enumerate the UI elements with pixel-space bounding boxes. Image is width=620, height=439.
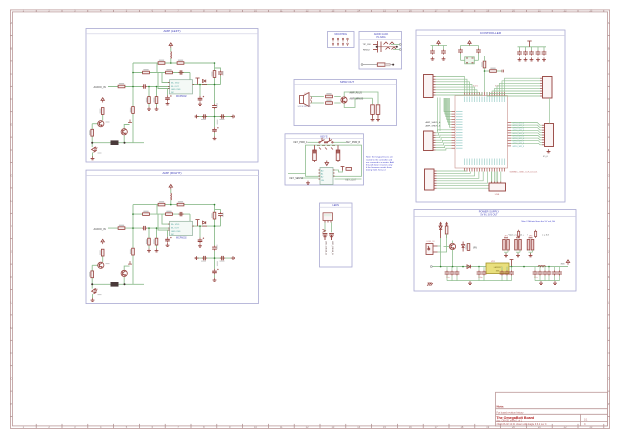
ground keys xyxy=(306,181,310,185)
wire frame net xyxy=(306,145,362,176)
svg-text:LED_DATA_A: LED_DATA_A xyxy=(325,241,328,255)
wire main rail xyxy=(432,266,568,268)
wire SJ2 down xyxy=(516,250,520,254)
wire left riser b xyxy=(439,98,441,132)
svg-text:H: H xyxy=(608,199,610,203)
svg-text:USB: USB xyxy=(495,194,500,196)
svg-text:For board revision history: For board revision history xyxy=(497,411,525,414)
svg-text:10u: 10u xyxy=(446,277,449,279)
pin circle rail left xyxy=(430,266,432,268)
supply flag right xyxy=(566,260,569,265)
resistor R22 xyxy=(465,244,469,251)
capacitor CC1 xyxy=(506,267,508,271)
pin circle 1 xyxy=(399,44,401,46)
svg-text:AMP_SHDN_A: AMP_SHDN_A xyxy=(426,121,441,124)
wire gnd far right xyxy=(549,280,560,282)
amp circuit left channel xyxy=(89,43,234,160)
supply flag mid xyxy=(510,260,514,267)
svg-text:PJ-320A: PJ-320A xyxy=(376,36,386,39)
mounting hole H1 xyxy=(332,38,334,41)
microcontroller U3 body xyxy=(455,96,508,169)
capacitor CD0 xyxy=(534,267,536,271)
title block outline xyxy=(496,392,608,426)
wire sense xyxy=(302,177,319,179)
connector J8 bottom xyxy=(489,183,506,191)
wire q4 xyxy=(444,241,453,267)
ic U2 keyscan xyxy=(319,168,335,185)
switch pads marks xyxy=(317,146,335,150)
ground right group xyxy=(539,281,543,285)
wire sleeve bottom xyxy=(363,64,394,66)
svg-text:O: O xyxy=(10,377,12,381)
capacitor CE1 xyxy=(559,267,561,271)
audio jack J1 xyxy=(373,41,397,53)
barrel jack J9 xyxy=(426,244,438,255)
wire to Q3 xyxy=(334,92,378,108)
svg-text:VIN: VIN xyxy=(473,248,477,250)
ground below C13 xyxy=(376,117,380,121)
ground below C40 xyxy=(518,57,522,61)
resistor R12 xyxy=(326,93,333,98)
diode D7 series xyxy=(467,265,470,269)
ground below C21 xyxy=(442,57,446,61)
wire crystal right xyxy=(474,59,478,61)
svg-text:P: P xyxy=(608,402,610,406)
svg-text:AMP_SHDN_B: AMP_SHDN_B xyxy=(426,124,441,127)
wire tip to pin xyxy=(391,45,400,50)
capacitor C20 xyxy=(432,46,434,50)
svg-text:AMP_MINUS: AMP_MINUS xyxy=(350,97,364,100)
wire right riser xyxy=(549,98,551,124)
switch S2 xyxy=(326,138,333,143)
svg-text:C: C xyxy=(10,72,12,76)
diode D5 vertical xyxy=(439,223,442,238)
transistor Q4 xyxy=(449,243,455,249)
fuse F1 vertical xyxy=(445,223,448,238)
svg-text:AMP_PLUS: AMP_PLUS xyxy=(350,92,363,95)
resistor R14 small xyxy=(346,168,352,171)
BOX H : controller xyxy=(416,30,565,202)
supply VCC topleft xyxy=(437,41,440,46)
supply arrow D5 xyxy=(439,222,441,227)
capacitor C21 xyxy=(443,46,445,50)
svg-text:N: N xyxy=(608,351,610,355)
wire SJ1 down xyxy=(504,250,508,254)
svg-text:A1: A1 xyxy=(321,173,323,176)
svg-text:P: P xyxy=(11,402,13,406)
capacitor C13 electrolytic xyxy=(376,105,380,118)
resistor R20 pullup xyxy=(481,61,485,68)
resistor R13 xyxy=(326,100,333,105)
svg-text:USB_5V: USB_5V xyxy=(427,241,436,243)
BOX E : speaker out xyxy=(294,80,397,126)
ground SJ1 xyxy=(504,253,508,256)
resistor R11 sleeve xyxy=(377,63,385,66)
wire speaker minus xyxy=(311,102,324,104)
capacitor CA2 xyxy=(456,267,458,271)
crystal Y1 xyxy=(465,57,475,64)
wires J3 to U3 xyxy=(487,78,540,96)
supply arrow F1 xyxy=(445,222,447,227)
note text block keys xyxy=(366,156,395,172)
amp circuit right channel xyxy=(89,185,234,302)
capacitor CA1 xyxy=(451,267,453,271)
mounting hole H4 xyxy=(347,38,349,41)
svg-text:The OmegaBolt Board: The OmegaBolt Board xyxy=(496,416,534,420)
capacitor CB0 xyxy=(478,267,480,271)
svg-text:22u: 22u xyxy=(534,277,537,279)
svg-text:KEY_SENSE: KEY_SENSE xyxy=(290,178,304,180)
svg-text:GPIO_SPI_9: GPIO_SPI_9 xyxy=(513,146,525,148)
wire jack up xyxy=(438,234,447,267)
wire crystal rail xyxy=(461,45,479,47)
svg-text:KEY_PWR_B: KEY_PWR_B xyxy=(346,142,361,144)
svg-text:TIP_SW: TIP_SW xyxy=(363,44,372,46)
svg-text:IO_0: IO_0 xyxy=(543,156,549,158)
speaker LS1 xyxy=(300,93,312,107)
svg-text:5V IN, 3V3 OUT: 5V IN, 3V3 OUT xyxy=(480,214,498,217)
svg-text:MOUNTING: MOUNTING xyxy=(335,34,348,36)
capacitor stack C17 xyxy=(323,234,328,241)
U3 top pin labels xyxy=(464,97,505,103)
svg-text:are scanned in a matrix. Add: are scanned in a matrix. Add xyxy=(366,161,395,164)
ground far right xyxy=(553,281,557,285)
junction R21 xyxy=(484,70,486,72)
red mark R21 end xyxy=(502,70,503,73)
svg-text:SPKR 8R 2W: SPKR 8R 2W xyxy=(298,106,312,108)
svg-text:D: D xyxy=(608,97,610,101)
svg-text:AMP (LEFT): AMP (LEFT) xyxy=(163,29,180,33)
svg-text:K: K xyxy=(608,275,610,279)
U3 left pin labels xyxy=(456,111,463,149)
U3 bottom pin row xyxy=(465,168,505,172)
svg-text:G: G xyxy=(608,173,610,177)
capacitor C44 xyxy=(543,47,545,51)
svg-text:H: H xyxy=(10,199,12,203)
capacitor CA0 xyxy=(446,267,448,271)
wire led left xyxy=(324,223,326,233)
ground below C44 xyxy=(542,57,546,61)
svg-text:G: G xyxy=(10,173,12,177)
resistor RF2 formula xyxy=(535,230,537,238)
wires J2 to U3 xyxy=(436,77,483,96)
net label vertical right xyxy=(331,241,334,255)
capacitor CC2 xyxy=(511,267,513,271)
wire cap rail left xyxy=(431,45,448,47)
ground J6 xyxy=(547,149,551,153)
svg-text:Note:: Note: xyxy=(497,405,505,409)
svg-text:routed to the controller and: routed to the controller and xyxy=(366,158,393,161)
svg-text:KEYS: KEYS xyxy=(321,134,328,138)
mounting hole H5 xyxy=(332,43,334,46)
capacitor CE0 xyxy=(554,267,556,271)
capacitor C15 electrolytic xyxy=(336,145,340,162)
capacitor CB1 xyxy=(483,267,485,271)
supply VCC topright xyxy=(527,41,531,47)
svg-text:100n: 100n xyxy=(478,277,482,279)
svg-text:O: O xyxy=(608,377,610,381)
capacitor C40 xyxy=(519,47,521,51)
ground below C43 xyxy=(536,57,540,61)
wires J4 to U3 left xyxy=(436,98,452,150)
wire crystal left xyxy=(461,59,465,61)
capacitor C43 xyxy=(537,47,539,51)
capacitor C42 xyxy=(531,47,533,51)
BOX G : status leds xyxy=(320,203,353,267)
svg-text:A2: A2 xyxy=(321,176,323,179)
ground below C42 xyxy=(530,57,534,61)
junction sleeve xyxy=(392,64,394,66)
svg-text:if the firmware needs them: if the firmware needs them xyxy=(366,166,392,169)
ground SJ2 xyxy=(516,253,520,256)
svg-text:M: M xyxy=(10,326,12,330)
U3 right pin labels xyxy=(513,122,525,147)
resistor RF1 formula xyxy=(518,230,520,238)
U3 left pin column xyxy=(452,112,456,149)
BOX D : audio jack xyxy=(359,32,402,70)
inductor L2 series xyxy=(538,265,546,268)
U3 right pin column xyxy=(508,123,512,146)
transistor Q3 xyxy=(341,97,347,103)
ground below C12 xyxy=(371,117,375,121)
svg-text:C: C xyxy=(584,423,586,426)
BOX C : mounting holes xyxy=(328,32,355,48)
frame column tick marks top xyxy=(35,10,37,12)
svg-text:) = 3.3: ) = 3.3 xyxy=(543,234,550,236)
pin circle 2 xyxy=(399,49,401,51)
BOX A : amp left channel xyxy=(86,29,258,163)
wire cap rail right xyxy=(518,46,547,48)
mounting hole H2 xyxy=(337,38,339,41)
svg-text:M: M xyxy=(608,326,610,330)
svg-text:K: K xyxy=(11,275,13,279)
svg-text:during hold. See p.4: during hold. See p.4 xyxy=(366,169,386,172)
svg-text:E: E xyxy=(608,123,610,127)
solder jumper SJ3 xyxy=(527,238,534,250)
pin circle 3 xyxy=(361,64,363,66)
capacitor CD3 xyxy=(548,267,550,271)
svg-text:A: A xyxy=(608,21,610,25)
ground below C20 xyxy=(431,57,435,61)
junction dots jack xyxy=(376,46,378,48)
wire aux row xyxy=(288,173,306,175)
svg-text:E: E xyxy=(11,123,13,127)
capacitor CD2 xyxy=(544,267,546,271)
capacitor CD1 xyxy=(539,267,541,271)
svg-text:N: N xyxy=(10,351,12,355)
svg-text:AMP (RIGHT): AMP (RIGHT) xyxy=(162,171,181,175)
wire ground bus xyxy=(447,280,512,282)
U3 top pin row xyxy=(465,92,505,96)
wire key out xyxy=(335,178,362,180)
capacitor C14 electrolytic xyxy=(313,145,317,162)
svg-text:LEDS: LEDS xyxy=(332,204,339,207)
junction dots rail xyxy=(440,266,550,268)
svg-text:SDMMC_CMD_CLK_D0_D1: SDMMC_CMD_CLK_D0_D1 xyxy=(510,171,539,173)
jumper pad xyxy=(385,63,390,66)
BOX I : power xyxy=(414,210,576,292)
wires bottom bus xyxy=(437,171,497,188)
ground SJ3 xyxy=(529,253,533,256)
svg-text:the pull down resistors only: the pull down resistors only xyxy=(366,164,393,167)
capacitor C12 electrolytic xyxy=(371,105,375,118)
svg-text:CONTROLLER: CONTROLLER xyxy=(480,31,502,35)
connector J3 xyxy=(543,77,553,99)
diode D3 arrow xyxy=(325,161,329,166)
BOX B : amp right channel xyxy=(86,170,258,304)
zener D6 xyxy=(462,242,465,252)
ground bus symbol xyxy=(468,281,472,285)
wire speaker plus xyxy=(311,96,324,98)
mounting hole H6 xyxy=(337,43,339,46)
wire led right xyxy=(331,223,333,233)
ground below C41 xyxy=(524,57,528,61)
net label vertical left xyxy=(325,241,328,255)
regulator U4 xyxy=(486,263,509,274)
mounting hole H7 xyxy=(342,43,344,46)
mounting hole H8 xyxy=(347,43,349,46)
capacitor stack C18 xyxy=(329,234,334,241)
svg-text:LED_DATA_B: LED_DATA_B xyxy=(331,241,334,255)
mounting hole H3 xyxy=(342,38,344,41)
svg-text:B: B xyxy=(11,46,13,50)
switch S1 xyxy=(319,138,326,143)
wire gnd right group xyxy=(535,280,549,282)
wires U3 to J6 xyxy=(511,123,542,145)
solder jumper SJ1 xyxy=(503,238,510,250)
wire SJ3 down xyxy=(529,250,533,254)
led D4 xyxy=(323,229,326,232)
svg-text:SPKR OUT: SPKR OUT xyxy=(340,80,355,84)
resistor R21 xyxy=(490,68,497,73)
capacitor C31 crystal xyxy=(478,46,480,49)
capacitor C16 flag xyxy=(341,167,345,171)
capacitor C41 xyxy=(525,47,527,51)
connector J7 xyxy=(425,169,435,190)
svg-text:doc: OB-001 sheet 1 of 1: doc: OB-001 sheet 1 of 1 xyxy=(497,419,523,422)
svg-text:B: B xyxy=(608,46,610,50)
svg-text:RING2: RING2 xyxy=(363,50,370,52)
wire left riser a xyxy=(437,98,439,132)
solder jumper SJ2 xyxy=(515,238,522,250)
connector J2 xyxy=(424,75,434,98)
chassis ground left xyxy=(427,283,433,286)
svg-text:KEY_OUT: KEY_OUT xyxy=(346,180,357,182)
wire key top right xyxy=(333,141,346,143)
capacitor CC0 xyxy=(501,267,503,271)
U3 bottom pin labels xyxy=(464,159,505,166)
connector J5 xyxy=(323,213,333,223)
capacitor C30 crystal xyxy=(460,46,462,49)
wires bus to J8 xyxy=(492,172,501,182)
svg-text:A0: A0 xyxy=(321,170,323,173)
connector J4 xyxy=(424,131,434,151)
svg-text:C: C xyxy=(608,72,610,76)
svg-text:Max 2.5A total from the 5V rai: Max 2.5A total from the 5V rail, 1A xyxy=(522,220,556,223)
svg-text:2024-06-02 12:41 drawn with E: 2024-06-02 12:41 drawn with Eagle 9.6.2 … xyxy=(497,423,547,426)
supply VCC crystal xyxy=(468,41,471,46)
svg-text:Note: the keypad traces are: Note: the keypad traces are xyxy=(366,156,394,159)
wire key top left xyxy=(308,141,319,143)
connector J6 xyxy=(545,124,554,147)
svg-text:A: A xyxy=(11,21,13,25)
svg-text:D: D xyxy=(10,97,12,101)
svg-text:KEY_PWR_A: KEY_PWR_A xyxy=(294,141,309,144)
svg-text:LM1117: LM1117 xyxy=(494,267,502,269)
BOX F : keys xyxy=(285,134,364,185)
wire cap to ic xyxy=(335,170,343,172)
TITLE BLOCK xyxy=(496,392,608,426)
